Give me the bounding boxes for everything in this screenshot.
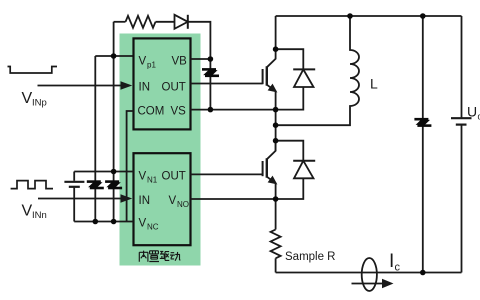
pin VS xyxy=(171,106,187,118)
waveform icon VINn (square wave) xyxy=(11,181,53,189)
IGBT Q1 (high side) xyxy=(263,49,277,109)
arrowhead into IN pin (lower driver) xyxy=(121,194,133,202)
wire VINn to IN (lower) xyxy=(38,198,123,200)
node lower collector xyxy=(273,138,279,144)
svg-text:COM: COM xyxy=(138,106,165,118)
svg-text:N1: N1 xyxy=(147,176,158,185)
label Ic xyxy=(389,251,401,274)
zener Z3 (bootstrap, VB-VS) xyxy=(202,69,219,75)
svg-text:VB: VB xyxy=(172,56,188,68)
label L xyxy=(370,76,378,92)
svg-text:c: c xyxy=(395,262,401,274)
node top rail L xyxy=(347,13,353,19)
bottom rail of input network (VNC rail) xyxy=(74,221,133,223)
svg-text:OUT: OUT xyxy=(162,171,186,183)
pin OUT (lower) xyxy=(162,171,186,183)
wire from Vp1 pin left xyxy=(95,55,133,57)
wire diode to VB corner xyxy=(188,22,211,59)
pin VN1 xyxy=(139,171,158,185)
pin Vp1 xyxy=(139,56,157,70)
OUT wire (upper) to gate xyxy=(191,83,263,85)
zener Z4 (right branch) xyxy=(414,119,431,125)
arrowhead into IN pin (upper driver) xyxy=(121,81,133,89)
svg-text:U: U xyxy=(467,104,477,120)
node VN1 rail junction xyxy=(111,169,117,175)
VB wire xyxy=(191,58,211,60)
current arrow xyxy=(352,279,394,289)
node VNC rail junction a xyxy=(93,219,99,225)
label Sample R xyxy=(285,251,336,263)
svg-text:p1: p1 xyxy=(147,61,156,70)
node Vp1 junction xyxy=(111,53,117,59)
capacitor C (input network) xyxy=(64,172,84,222)
label Ud xyxy=(467,104,480,122)
svg-text:V: V xyxy=(22,90,33,107)
svg-text:V: V xyxy=(169,195,177,207)
zener Z1 (on x=95 line) xyxy=(87,182,104,188)
IGBT Q2 (low side) xyxy=(263,141,277,199)
node upper collector xyxy=(273,46,279,52)
current probe ellipse Ic xyxy=(362,258,377,291)
svg-text:V: V xyxy=(22,203,33,220)
svg-text:INn: INn xyxy=(32,210,47,221)
long vertical wire x=95 xyxy=(94,56,96,222)
inductor L xyxy=(276,16,359,125)
node L return xyxy=(273,122,279,128)
label 内置驱动 (drawn strokes) xyxy=(139,251,180,262)
bootstrap cap line VB-VS xyxy=(209,59,211,110)
label VINn xyxy=(22,203,47,222)
svg-text:NO: NO xyxy=(177,200,189,209)
COM wire down to bottom rail xyxy=(127,111,134,222)
node top rail snubber xyxy=(420,13,426,19)
wire resistor to diode xyxy=(156,21,175,23)
svg-text:VS: VS xyxy=(171,106,187,118)
VNO wire to emitter node xyxy=(191,198,276,200)
node phase VS xyxy=(273,107,279,113)
freewheel diode D3 (lower) xyxy=(276,141,316,199)
node VB junction xyxy=(208,56,214,62)
svg-text:V: V xyxy=(139,171,147,183)
driver box U1 (high side) xyxy=(134,38,191,129)
svg-text:I: I xyxy=(389,251,394,272)
phase node vertical (VS to lower collector) xyxy=(275,110,277,151)
svg-text:L: L xyxy=(370,76,378,92)
wire emitter node to sample resistor xyxy=(275,199,277,230)
driver block background (内置驱动 green region) xyxy=(120,34,201,266)
svg-text:IN: IN xyxy=(139,195,151,207)
diode D (bootstrap) xyxy=(175,15,188,29)
top DC rail xyxy=(276,15,462,17)
snubber branch vertical (right) xyxy=(422,16,424,273)
resistor R (bootstrap) xyxy=(126,16,156,28)
pin COM xyxy=(138,106,165,118)
pin VNO xyxy=(169,195,190,209)
svg-text:Sample R: Sample R xyxy=(285,251,336,263)
freewheel diode D2 (upper) xyxy=(276,49,316,109)
top rail of input network (VN1 rail) xyxy=(74,171,133,173)
svg-text:OUT: OUT xyxy=(162,82,186,94)
OUT wire (lower) to gate xyxy=(191,173,263,175)
sample resistor (zigzag) xyxy=(271,230,281,259)
node VS junction xyxy=(208,107,214,113)
pin VNC xyxy=(139,218,159,232)
pin IN (lower) xyxy=(139,195,151,207)
DC source Ud (battery) xyxy=(451,16,472,273)
wire resistor to bottom rail xyxy=(275,258,277,272)
svg-text:V: V xyxy=(139,218,147,230)
VS wire to phase node xyxy=(191,109,276,111)
svg-text:INp: INp xyxy=(32,98,47,109)
pin OUT (upper) xyxy=(162,82,186,94)
wire top rail corner down to upper collector node xyxy=(275,16,277,49)
zener Z2 (on x=113.6 line) xyxy=(105,182,122,188)
waveform icon VINp (negative pulse) xyxy=(8,67,58,74)
top branch wire to resistor xyxy=(114,21,126,23)
node VNC rail junction b xyxy=(111,219,117,225)
svg-text:NC: NC xyxy=(147,223,159,232)
label VINp xyxy=(22,90,47,109)
pin VB xyxy=(172,56,188,68)
node bottom rail snubber xyxy=(420,270,426,276)
long vertical wire x=113.6 xyxy=(113,22,115,222)
node lower emitter xyxy=(273,196,279,202)
bottom rail xyxy=(276,272,462,274)
pin IN (upper) xyxy=(139,82,151,94)
wire VINp to IN (upper) xyxy=(38,85,124,87)
svg-text:V: V xyxy=(139,56,147,68)
driver box U2 (low side) xyxy=(134,153,191,245)
svg-text:IN: IN xyxy=(139,82,151,94)
